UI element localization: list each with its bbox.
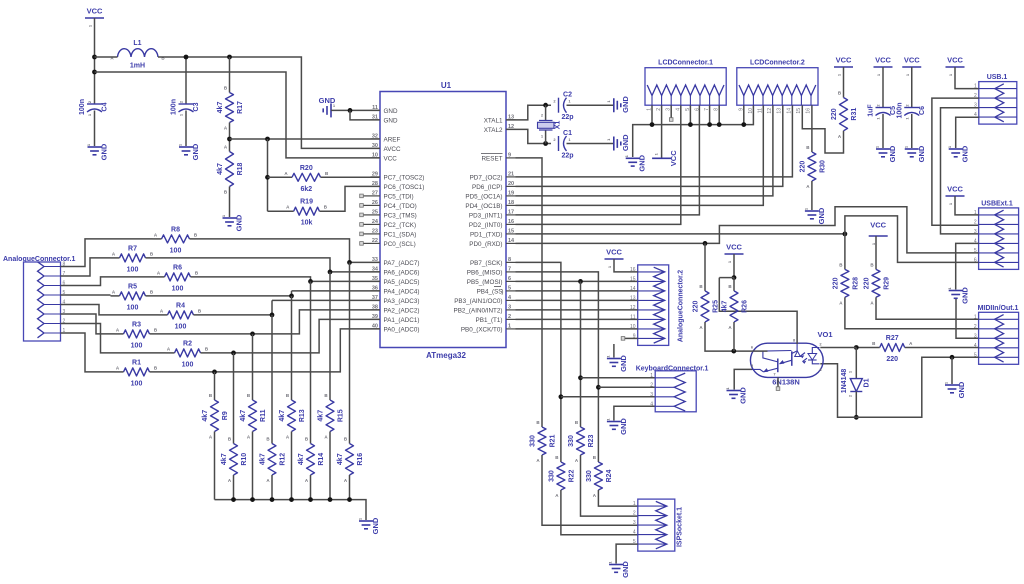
wire USB pin 3 to USBExt pin 3 [941, 108, 979, 234]
junction [950, 355, 955, 360]
svg-text:ISPSocket.1: ISPSocket.1 [677, 507, 684, 547]
node PA0 [212, 370, 217, 375]
ground [178, 143, 201, 160]
wire ISP pin 5 to ground [616, 544, 638, 563]
svg-text:220: 220 [832, 277, 839, 289]
wire stub LCD1 pin3 [670, 105, 672, 118]
optocoupler VO1 6N138N [750, 330, 832, 387]
svg-text:PA3_(ADC3): PA3_(ADC3) [384, 298, 420, 305]
wire R7 A [111, 257, 120, 259]
unconnected pin [360, 232, 364, 236]
svg-text:PB0_(XCK/T0): PB0_(XCK/T0) [461, 326, 503, 333]
wire MOSI down to R23 [580, 281, 582, 427]
svg-text:C4: C4 [102, 102, 109, 111]
svg-text:2: 2 [508, 314, 511, 320]
resistor R24 [586, 455, 613, 498]
svg-text:GND: GND [384, 108, 398, 115]
U1 pin 22 PC0_(SCL) [371, 238, 416, 248]
connector USB.1 [979, 74, 1017, 124]
junction [308, 497, 313, 502]
ground [606, 96, 630, 113]
wire VCC to USB pin 1 [955, 67, 979, 89]
node PA1 [231, 351, 236, 356]
svg-text:R13: R13 [299, 409, 306, 422]
svg-text:23: 23 [372, 228, 378, 234]
junction [732, 275, 737, 280]
U1 pin 31 GND [371, 114, 398, 124]
svg-text:R26: R26 [742, 300, 749, 313]
wire stub pin [363, 214, 371, 216]
resistor R2 [167, 340, 209, 368]
wire R25 to optocoupler [705, 322, 752, 351]
svg-text:PC6_(TOSC1): PC6_(TOSC1) [384, 184, 425, 191]
svg-text:AVCC: AVCC [384, 146, 401, 153]
wire RESET to R21 [516, 158, 543, 427]
wire AREF net to pin 32 [230, 138, 381, 140]
svg-text:R27: R27 [886, 335, 899, 342]
resistor R29 [864, 262, 891, 305]
wire connector pin 2 to R2 [61, 324, 166, 353]
resistor R6 [157, 264, 199, 292]
svg-text:GND: GND [888, 145, 897, 162]
resistor R13 [279, 393, 306, 440]
unconnected pin [360, 242, 364, 246]
power symbol VCC [725, 243, 744, 264]
svg-text:15: 15 [508, 228, 514, 234]
svg-text:VCC: VCC [947, 185, 963, 194]
wire R1 B to PA0 [150, 329, 381, 372]
svg-text:KeyboardConnector.1: KeyboardConnector.1 [636, 366, 709, 373]
wire C3 to ground [185, 111, 187, 147]
svg-text:16: 16 [806, 108, 812, 114]
wire USB pin 4 to ground [956, 117, 979, 148]
svg-text:VCC: VCC [669, 150, 678, 166]
connector AnalogueConnector.1 [3, 256, 75, 341]
svg-text:2: 2 [633, 511, 636, 517]
wire Keyboard pin 2 [598, 386, 655, 388]
wire R19 B to pin 28 [319, 186, 380, 211]
connector USBExt.1 [979, 201, 1019, 270]
svg-text:4: 4 [633, 530, 636, 536]
wire to R13 [291, 296, 293, 400]
resistor R12 [260, 437, 287, 484]
node PA4 [289, 294, 294, 299]
ground [608, 561, 631, 578]
wire to crystal [545, 105, 547, 120]
svg-text:100n: 100n [171, 99, 178, 115]
U1 pin 29 PC7_(TOSC2) [371, 171, 425, 181]
svg-text:PB7_(SCK): PB7_(SCK) [470, 260, 503, 267]
svg-text:100n: 100n [896, 103, 903, 119]
svg-text:PD4_(OC1B): PD4_(OC1B) [465, 203, 502, 210]
junction [707, 122, 712, 127]
svg-text:13: 13 [777, 108, 783, 114]
U1 pin 17 PD3_(INT1) [469, 209, 516, 219]
svg-text:RESET: RESET [482, 155, 503, 162]
svg-text:PC4_(TDO): PC4_(TDO) [384, 203, 417, 210]
svg-text:100: 100 [127, 266, 139, 273]
wire Keyboard pin 1 [581, 377, 656, 379]
unconnected pin [360, 194, 364, 198]
junction [854, 415, 859, 420]
ground [803, 207, 826, 224]
svg-text:R30: R30 [819, 160, 826, 173]
U1 pin 27 PC5_(TDI) [371, 190, 414, 200]
wire to R16 [349, 262, 351, 443]
svg-text:R29: R29 [884, 277, 891, 290]
wire R21 to ISP pin 3 [542, 455, 638, 525]
svg-text:X1: X1 [555, 121, 562, 130]
svg-text:GND: GND [371, 517, 380, 534]
ground [606, 134, 630, 151]
svg-text:1uF: 1uF [868, 104, 875, 117]
U1 pin 19 PD5_(OC1A) [465, 190, 515, 200]
wire VCC branch [719, 277, 734, 279]
svg-text:R6: R6 [173, 264, 182, 271]
ground [947, 145, 970, 162]
svg-text:VO1: VO1 [817, 330, 832, 339]
resistor R3 [116, 321, 158, 349]
svg-text:330: 330 [568, 435, 575, 447]
U1 pin 28 PC6_(TOSC1) [371, 181, 425, 191]
svg-text:GND: GND [619, 418, 628, 435]
wire PD2 to LCD1 pin4 [516, 105, 681, 224]
wire LCD2 pin16 to R30 [811, 105, 813, 152]
resistor R4 [160, 302, 202, 330]
svg-text:PA0_(ADC0): PA0_(ADC0) [384, 326, 420, 333]
U1 pin 18 PD4_(OC1B) [465, 200, 515, 210]
ground [605, 418, 628, 435]
junction [250, 497, 255, 502]
svg-text:PA7_(ADC7): PA7_(ADC7) [384, 260, 420, 267]
wire MIDI pin 3 to ground net [956, 299, 979, 338]
power symbol VCC [85, 7, 104, 28]
svg-text:LCDConnector.1: LCDConnector.1 [658, 60, 713, 67]
svg-text:3: 3 [633, 520, 636, 526]
wire connector pin 4 to R4 [61, 305, 159, 315]
svg-text:4k7: 4k7 [279, 410, 286, 422]
wire C4 to ground [94, 111, 96, 147]
svg-text:VCC: VCC [87, 7, 103, 16]
junction [578, 375, 583, 380]
svg-text:PA6_(ADC6): PA6_(ADC6) [384, 269, 420, 276]
svg-text:6N138N: 6N138N [772, 378, 800, 387]
svg-text:20: 20 [508, 181, 514, 187]
wire R16 to ground bus [349, 475, 351, 500]
U1 pin 2 PB1_(T1) [476, 314, 516, 324]
U1 pin 14 PD0_(RXD) [469, 238, 515, 248]
wire to R20 A [268, 176, 293, 178]
resistor R15 [318, 393, 345, 440]
power symbol VCC [902, 56, 921, 77]
wire PD0 to USBExt pin 5 [516, 207, 979, 253]
connector ISPSocket.1 [633, 499, 684, 551]
wire to R12 [271, 315, 273, 444]
wire Keyboard pin 3 [561, 396, 655, 398]
U1 pin 6 PB5_(MOSI) [467, 276, 516, 286]
svg-text:26: 26 [372, 200, 378, 206]
junction [289, 497, 294, 502]
ground [944, 381, 967, 398]
svg-text:4k7: 4k7 [337, 453, 344, 465]
svg-text:GND: GND [384, 117, 398, 124]
wire L1 B to AVCC pin 30 [158, 57, 380, 148]
wire stub pin [363, 204, 371, 206]
U1 pin 33 PA7_(ADC7) [371, 257, 420, 267]
svg-text:8: 8 [508, 257, 511, 263]
svg-text:1: 1 [650, 373, 653, 379]
junction [347, 497, 352, 502]
svg-text:R11: R11 [260, 409, 267, 422]
wire stub pin [363, 195, 371, 197]
svg-text:330: 330 [548, 470, 555, 482]
resistor R26 [722, 284, 749, 330]
svg-text:R21: R21 [550, 434, 557, 447]
wire Keyboard pin 4 to ground [614, 406, 655, 420]
svg-text:R22: R22 [568, 469, 575, 482]
svg-text:PD1_(TXD): PD1_(TXD) [470, 231, 503, 238]
inductor L1 [110, 40, 165, 70]
svg-text:R10: R10 [241, 453, 248, 466]
svg-text:R5: R5 [128, 283, 137, 290]
wire R27 B [856, 347, 879, 349]
junction [559, 394, 564, 399]
wire connector pin 3 to R3 [61, 314, 115, 334]
svg-text:PB5_(MOSI): PB5_(MOSI) [467, 279, 503, 286]
wire C1 to ground [567, 143, 614, 145]
svg-text:2: 2 [974, 219, 977, 225]
wire R3 A [115, 333, 124, 335]
U1 pin 21 PD7_(OC2) [470, 171, 516, 181]
svg-text:VCC: VCC [875, 56, 891, 65]
wire R13 to ground bus [291, 432, 293, 500]
connector KeyboardConnector.1 [636, 366, 709, 412]
wire to PA3 [272, 299, 380, 301]
unconnected pin LCD1.3 [669, 118, 673, 122]
svg-text:LCDConnector.2: LCDConnector.2 [750, 60, 805, 67]
junction [731, 349, 736, 354]
wire VCC to optocoupler pin 8 [719, 278, 797, 344]
svg-text:R17: R17 [237, 101, 244, 114]
svg-text:GND: GND [957, 381, 966, 398]
U1 pin 24 PC2_(TCK) [371, 219, 417, 229]
junction [688, 122, 693, 127]
svg-text:4k7: 4k7 [240, 410, 247, 422]
U1 pin 36 PA4_(ADC4) [371, 285, 420, 295]
junction [265, 175, 270, 180]
wire stub optocoupler pin 7 [777, 377, 779, 387]
svg-text:220: 220 [831, 108, 838, 120]
U1 pin 3 PB2_(AIN0/INT2) [454, 304, 516, 314]
wire LCD pin to bus [651, 105, 653, 124]
wire R2 B to PA1 [201, 319, 381, 353]
wire PD7 to LCD2 pin14 [516, 105, 793, 177]
wire MOSI to AnalogueConnector.2 pin 15 [516, 280, 638, 282]
wire PD1 net [516, 233, 845, 235]
svg-text:PA1_(ADC1): PA1_(ADC1) [384, 317, 420, 324]
svg-text:15: 15 [796, 108, 802, 114]
svg-text:R23: R23 [588, 434, 595, 447]
svg-text:220: 220 [886, 356, 898, 363]
U1 pin 8 PB7_(SCK) [470, 257, 516, 267]
wire PD5 to LCD2 pin12 [516, 105, 773, 196]
svg-text:R16: R16 [357, 453, 364, 466]
svg-text:5: 5 [508, 285, 511, 291]
U1 pin 30 AVCC [371, 143, 401, 153]
junction [703, 241, 708, 246]
wire PD1 to R28 [844, 234, 846, 270]
svg-text:GND: GND [817, 207, 826, 224]
wire PD4 to LCD2 pin11 [516, 105, 764, 205]
svg-text:PD2_(INT0): PD2_(INT0) [469, 222, 503, 229]
svg-text:3: 3 [650, 392, 653, 398]
node PA2 [250, 332, 255, 337]
svg-text:C3: C3 [193, 102, 200, 111]
resistor R23 [568, 420, 595, 463]
wire stub pin [363, 223, 371, 225]
svg-text:R25: R25 [713, 300, 720, 313]
svg-text:VCC: VCC [606, 248, 622, 257]
wire PD6 to LCD2 pin13 [516, 105, 783, 186]
junction [328, 497, 333, 502]
svg-text:31: 31 [372, 114, 378, 120]
svg-text:6: 6 [508, 276, 511, 282]
svg-text:GND: GND [638, 154, 647, 171]
U1 pin 32 AREF [371, 133, 401, 143]
wire R22 to ISP pin 4 [561, 490, 638, 535]
wire R4 B [194, 314, 273, 316]
wire VCC to R26 [733, 278, 735, 291]
junction [543, 141, 548, 146]
U1 pin 4 PB3_(AIN1/OC0) [454, 295, 515, 305]
capacitor C6 [896, 103, 926, 120]
svg-text:100: 100 [127, 304, 139, 311]
wire up to PA4 row [291, 291, 293, 296]
svg-text:VCC: VCC [836, 56, 852, 65]
svg-text:PB4_(SS: PB4_(SS [477, 288, 503, 295]
U1 pin 7 PB6_(MISO) [467, 266, 516, 276]
wire LCD pin to bus [689, 105, 691, 124]
U1 pin 25 PC3_(TMS) [371, 209, 417, 219]
svg-text:PA2_(ADC2): PA2_(ADC2) [384, 307, 420, 314]
junction [231, 497, 236, 502]
resistor R16 [337, 437, 364, 484]
wire to R11 [252, 334, 254, 400]
svg-text:220: 220 [693, 301, 700, 313]
wire MIDI pin 4 to R27 [905, 347, 979, 349]
svg-text:4k7: 4k7 [221, 453, 228, 465]
wire VCC to R31 [843, 67, 845, 98]
ground [725, 387, 748, 404]
junction [92, 55, 97, 60]
svg-text:D1: D1 [863, 378, 870, 387]
svg-text:PA5_(ADC5): PA5_(ADC5) [384, 279, 420, 286]
wire PB2 to pin 12 [516, 309, 638, 311]
node PA3 [270, 313, 275, 318]
svg-text:14: 14 [786, 108, 792, 114]
U1 pin 1 PB0_(XCK/T0) [461, 323, 516, 333]
junction [741, 122, 746, 127]
svg-text:C1: C1 [563, 130, 572, 137]
U1 pin 10 VCC [371, 152, 398, 162]
wire R15 to ground bus [329, 432, 331, 500]
wire R9 to ground bus [214, 432, 216, 500]
svg-text:4k7: 4k7 [260, 453, 267, 465]
svg-text:100: 100 [175, 323, 187, 330]
svg-text:4k7: 4k7 [298, 453, 305, 465]
svg-text:PC2_(TCK): PC2_(TCK) [384, 222, 417, 229]
wire PB4 to pin 14 [516, 290, 638, 292]
wire PB3 to pin 13 [516, 299, 638, 301]
svg-text:21: 21 [508, 171, 514, 177]
U1 pin 9 RESET [481, 152, 516, 162]
wire LCD ground bus [633, 105, 754, 157]
resistor R5 [112, 283, 154, 311]
wire VCC to C6 [911, 67, 913, 108]
svg-text:3: 3 [508, 304, 511, 310]
svg-text:18: 18 [508, 200, 514, 206]
svg-text:27: 27 [372, 190, 378, 196]
U1 pin 38 PA2_(ADC2) [371, 304, 420, 314]
wire R4 A [159, 314, 168, 316]
wire to R19 A [268, 210, 294, 212]
svg-text:GND: GND [917, 145, 926, 162]
wire C5 to ground [882, 114, 884, 148]
resistor R1 [116, 359, 158, 387]
power symbol VCC [874, 56, 893, 77]
wire R5 B [146, 295, 292, 297]
svg-text:330: 330 [586, 470, 593, 482]
svg-text:R28: R28 [852, 277, 859, 290]
wire VCC [733, 254, 735, 278]
wire R14 to ground bus [310, 475, 312, 500]
svg-text:11: 11 [372, 105, 378, 111]
svg-text:GND: GND [100, 143, 109, 160]
svg-text:3: 3 [974, 333, 977, 339]
svg-text:R7: R7 [128, 245, 137, 252]
wire connector pin 5 to R5 [61, 294, 111, 296]
wire L1 A [95, 56, 118, 58]
wire PB1 to pin 11 [516, 318, 638, 320]
wire R6 A [156, 276, 165, 278]
junction [227, 137, 232, 142]
svg-text:100: 100 [131, 342, 143, 349]
svg-text:22p: 22p [561, 153, 573, 160]
wire ground to pin 11 [331, 109, 380, 111]
svg-text:PB3_(AIN1/OC0): PB3_(AIN1/OC0) [454, 298, 502, 305]
svg-text:GND: GND [619, 355, 628, 372]
svg-text:XTAL1: XTAL1 [484, 117, 503, 124]
wire to ground [613, 344, 615, 358]
wire crystal to C1 node [545, 131, 547, 144]
svg-text:VCC: VCC [384, 155, 398, 162]
svg-text:4k7: 4k7 [202, 410, 209, 422]
resistor R7 [112, 245, 154, 273]
resistor R21 [530, 420, 557, 463]
svg-text:28: 28 [372, 181, 378, 187]
svg-text:R20: R20 [300, 165, 313, 172]
wire R17 to R18 [229, 123, 231, 152]
wire R2 A [166, 352, 175, 354]
resistor R27 [872, 335, 913, 363]
wire to optocoupler pin 6 [752, 350, 767, 352]
svg-text:R1: R1 [132, 359, 141, 366]
crystal X1 [538, 113, 562, 139]
svg-text:1: 1 [508, 323, 511, 329]
wire R24 to ISP pin 1 [598, 490, 637, 506]
wire PD3 to LCD1 pin6 [516, 105, 700, 215]
unconnected pin VO1 pin 7 [776, 387, 780, 391]
